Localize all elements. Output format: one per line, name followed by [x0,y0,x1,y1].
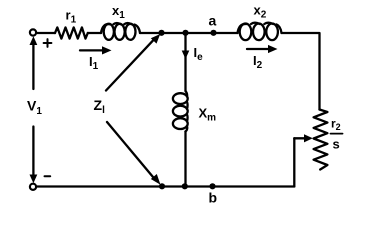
svg-text:Zl: Zl [94,97,106,116]
wiper arrow into r2/s [294,134,313,142]
current arrow I2 [247,45,278,53]
node b [209,183,215,189]
svg-text:Ie: Ie [194,45,204,63]
voltage arrow V1 (double headed, gap at label) [30,36,38,183]
svg-text:Xm: Xm [199,106,217,124]
wire (bottom) [36,185,294,187]
terminal (top-left, +) [30,29,36,35]
current arrowhead Ie [182,51,190,60]
impedance pointer Z1 lower arrow [107,122,161,185]
inductor Xm [173,91,188,132]
terminal (bottom-left, -) [30,184,36,190]
svg-text:V1: V1 [27,98,42,118]
current arrow I1 [80,46,112,54]
wire (riser from bottom wire to wiper) [293,138,295,186]
node (Ie branch junction) [182,30,188,36]
inductor x2 [238,23,282,40]
wire (Xm coil to bottom wire) [184,132,186,187]
impedance pointer Z1 upper arrow [106,34,160,91]
fraction bar of r2/s [331,133,343,135]
resistor r1 [55,27,88,38]
svg-text:r2: r2 [331,117,341,133]
svg-text:x1: x1 [112,3,125,21]
node (Z1 upper arrow target) [158,30,164,36]
inductor x1 [101,23,140,40]
node (Xm bottom junction) [182,183,188,189]
node a [210,30,216,36]
node (Z1 lower arrow target) [159,183,165,189]
svg-text:b: b [209,190,218,206]
svg-text:I1: I1 [89,54,99,72]
wire (x1 to x2 across nodes) [140,32,238,34]
wire (Ie branch: node to Xm coil) [184,33,186,91]
resistor r2/s [314,110,328,170]
minus sign [45,175,51,177]
svg-text:x2: x2 [254,3,267,21]
svg-text:r1: r1 [66,8,77,26]
wire (x2 to right corner, down to r2/s) [282,33,320,110]
svg-text:s: s [333,137,340,152]
svg-text:a: a [209,13,217,29]
wire (r1 to x1) [88,32,101,34]
svg-text:I2: I2 [253,53,263,71]
wire (terminal to r1) [36,32,55,34]
plus sign [44,39,52,47]
